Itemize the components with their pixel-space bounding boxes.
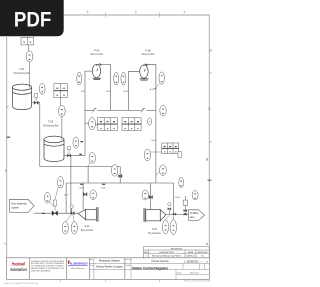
junction dark on H6 at V12 xyxy=(173,213,176,215)
svg-text:APPROVED: APPROVED xyxy=(198,251,208,254)
instrument bubble below IB5 xyxy=(156,165,166,176)
instrument box IB5 (3x2) xyxy=(162,143,179,154)
wire pump P-06 suction xyxy=(129,71,140,110)
svg-text:Scale: Scale xyxy=(177,272,181,274)
junction valve on line C at S-01 xyxy=(71,211,74,215)
PDF badge xyxy=(0,0,64,36)
title block xyxy=(7,258,210,280)
valve on S-02 riser xyxy=(149,195,153,199)
wire T-01 drain down xyxy=(38,103,40,167)
svg-text:Main Line Unit #1: Main Line Unit #1 xyxy=(91,52,104,56)
line label on line B left xyxy=(80,183,83,185)
instrument box IB1 xyxy=(21,37,34,45)
wire IB1 to bubble LT1 xyxy=(28,45,30,51)
line C xyxy=(34,212,78,214)
wire T-02 drain down xyxy=(70,156,72,214)
wire V10 line A to line B xyxy=(87,167,89,184)
valve V2 tank T-02 outlet xyxy=(67,154,70,157)
check valve on P-05 discharge xyxy=(99,63,101,65)
svg-text:Oil Receiving Tank: Oil Receiving Tank xyxy=(14,71,30,75)
instrument bubble above To Main Line xyxy=(179,177,184,187)
tank T-01 xyxy=(13,84,32,110)
instrument bubble right of S-01 riser xyxy=(90,190,97,200)
svg-text:Process Overview: Process Overview xyxy=(152,260,169,263)
svg-text:Pig Launcher: Pig Launcher xyxy=(148,232,161,235)
wire bubble LT2 to tank T-02 xyxy=(61,117,63,140)
svg-text:1: 1 xyxy=(183,10,185,14)
svg-text:DESCRIPTION: DESCRIPTION xyxy=(159,252,174,254)
instrument bubble right of P-06 xyxy=(156,72,164,88)
instrument box IB3 (3x2) xyxy=(98,118,118,131)
check valve on P-06 discharge xyxy=(146,64,148,66)
label S-01 xyxy=(81,225,94,232)
junction on H6 at upstem xyxy=(168,210,170,215)
svg-text:Pig Launcher: Pig Launcher xyxy=(81,229,94,232)
svg-text:A: A xyxy=(4,242,6,246)
actuator box on valve V2 xyxy=(68,147,71,150)
valve V1 tank T-01 outlet xyxy=(34,101,38,105)
wire pump P-05 suction xyxy=(85,71,92,155)
vent circle above junction xyxy=(71,208,73,213)
wire pump P-05 discharge xyxy=(97,64,111,110)
svg-text:Monitoring Wiring Dwg P&ID's: Monitoring Wiring Dwg P&ID's xyxy=(152,255,181,258)
wire V12 line B down to mainline xyxy=(173,183,175,215)
instrument bubble above mainline right xyxy=(192,191,198,200)
pump P-05 xyxy=(92,64,101,79)
actuator box on valve V1 xyxy=(35,94,38,98)
label tank T-01 xyxy=(14,67,30,75)
small bubble right of IB4 xyxy=(148,118,152,125)
label pump P-06 xyxy=(142,49,155,56)
svg-text:Mosquito Station: Mosquito Station xyxy=(99,260,121,263)
svg-text:T-01: T-01 xyxy=(19,67,25,71)
instrument bubble on line A xyxy=(111,165,117,177)
svg-text:From Gathering: From Gathering xyxy=(11,203,27,206)
line labels near pump drops xyxy=(81,89,157,142)
svg-text:S-02: S-02 xyxy=(152,228,158,231)
svg-text:To Main: To Main xyxy=(190,212,199,215)
svg-text:NOT TO BE REPRODUCED OR USED D: NOT TO BE REPRODUCED OR USED DIRECTLY OR… xyxy=(31,266,64,268)
valve on V11 xyxy=(119,174,123,178)
svg-text:Dwn by:: Dwn by: xyxy=(126,259,132,261)
svg-text:Line: Line xyxy=(190,216,195,219)
instrument bubble left of S-02 riser xyxy=(142,190,148,200)
instrument bubble left of P-05 xyxy=(77,72,82,85)
svg-text:Automation: Automation xyxy=(9,267,26,272)
instrument bubble near V10 xyxy=(88,153,95,167)
svg-text:Ckd by:: Ckd by: xyxy=(126,265,132,267)
line A xyxy=(40,166,120,168)
sheet frame xyxy=(7,15,210,258)
pump P-06 xyxy=(140,65,149,80)
svg-text:Oil Receiving Tank: Oil Receiving Tank xyxy=(43,124,59,128)
svg-text:PDF: PDF xyxy=(14,8,52,31)
svg-text:System: System xyxy=(11,206,19,209)
wire S-01 riser xyxy=(82,183,84,210)
svg-text:TSmith - c:\acad dwgs\P-FS-OPS: TSmith - c:\acad dwgs\P-FS-OPS-046 P&ID.… xyxy=(4,282,38,285)
label pump P-05 xyxy=(91,49,104,56)
zone letters left xyxy=(4,105,10,246)
instrument bubble left of IB3 xyxy=(89,117,96,129)
svg-text:B: B xyxy=(5,169,7,173)
svg-text:3-AUG-01: 3-AUG-01 xyxy=(186,255,195,258)
instrument bubbles below S-02 xyxy=(162,216,176,235)
line B xyxy=(66,182,173,184)
control valve CV1 on line C xyxy=(52,211,58,216)
zone ticks right xyxy=(208,73,212,180)
svg-text:3: 3 xyxy=(86,10,88,14)
small box below IB5 right xyxy=(178,152,181,158)
svg-text:T-02: T-02 xyxy=(48,120,54,124)
tank T-02 xyxy=(44,136,64,161)
instrument bubble left of IB5 xyxy=(144,149,162,161)
wire S-02 riser xyxy=(150,183,152,210)
svg-text:ALLEN-BRADLEY: ALLEN-BRADLEY xyxy=(70,261,89,265)
svg-text:Sheet 1 of 1: Sheet 1 of 1 xyxy=(190,271,199,274)
wire V11 line A to line B xyxy=(119,167,121,184)
allen-bradley logo xyxy=(68,260,89,269)
revision table xyxy=(144,247,210,258)
legal text block xyxy=(31,260,64,273)
svg-text:S-01: S-01 xyxy=(84,225,90,228)
svg-text:REVISIONS: REVISIONS xyxy=(171,249,183,251)
zone ticks bottom xyxy=(60,279,159,282)
branch V13 with PSV xyxy=(184,196,186,215)
instrument bubble LT2 xyxy=(59,105,66,116)
label S-02 xyxy=(148,228,161,235)
wire IB2 to bubble LT2 xyxy=(60,97,62,105)
instrument bubble LT1 xyxy=(26,51,33,62)
valve on S-01 riser xyxy=(83,192,87,196)
from gathering system arrow xyxy=(10,199,34,212)
instrument bubble above valve V2 xyxy=(73,137,79,148)
svg-text:2: 2 xyxy=(135,10,137,14)
wire pump P-06 discharge xyxy=(144,65,156,183)
instrument bubble on H1 right end xyxy=(160,105,166,116)
zone letters right xyxy=(206,49,213,247)
instrument bubble above CV1 xyxy=(45,192,54,206)
pig launcher S-02 xyxy=(144,209,146,222)
svg-text:D: D xyxy=(209,49,212,53)
pig launcher S-01 xyxy=(78,209,96,219)
wire bubble LT1 to tank T-01 xyxy=(29,62,31,88)
wire V5 line B to line C xyxy=(65,183,67,213)
svg-text:Orleans Pipeline Company: Orleans Pipeline Company xyxy=(96,266,124,269)
svg-text:Station Control Diagrams: Station Control Diagrams xyxy=(132,266,168,270)
line break symbol on H1 right xyxy=(140,108,145,110)
label tank T-02 xyxy=(43,120,59,128)
svg-text:L-15098-E12: L-15098-E12 xyxy=(184,261,199,264)
header line H1 xyxy=(85,109,156,111)
svg-text:P&ID Layout1 8/1/2001 10:42 AM: P&ID Layout1 8/1/2001 10:42 AM xyxy=(184,279,211,282)
instrument bubble left of line B xyxy=(55,176,64,200)
svg-text:C: C xyxy=(208,107,211,111)
wire T-02 suction riser xyxy=(71,155,85,157)
line break symbol on H1 left xyxy=(91,108,96,110)
to main line arrow xyxy=(189,210,205,221)
instrument bubbles between pumps xyxy=(114,72,119,85)
svg-text:DATE: DATE xyxy=(188,251,194,254)
instrument box IB2 (2x2) xyxy=(54,84,67,98)
wire tank T-02 outlet xyxy=(64,155,67,157)
wire tank T-01 outlet xyxy=(32,102,35,104)
svg-text:Main Line Unit #2: Main Line Unit #2 xyxy=(142,52,155,56)
instrument bubble above valve V1 xyxy=(39,83,45,94)
line label on line B mid xyxy=(102,183,105,185)
instrument box IB4 (3x2) xyxy=(122,118,141,131)
zone numbers top xyxy=(86,10,185,14)
instrument bubbles below S-01 xyxy=(62,215,77,235)
zone ticks top xyxy=(106,13,160,18)
wire mainline H6 xyxy=(166,214,189,216)
title fields xyxy=(90,258,208,274)
rockwell automation logo xyxy=(9,262,26,272)
